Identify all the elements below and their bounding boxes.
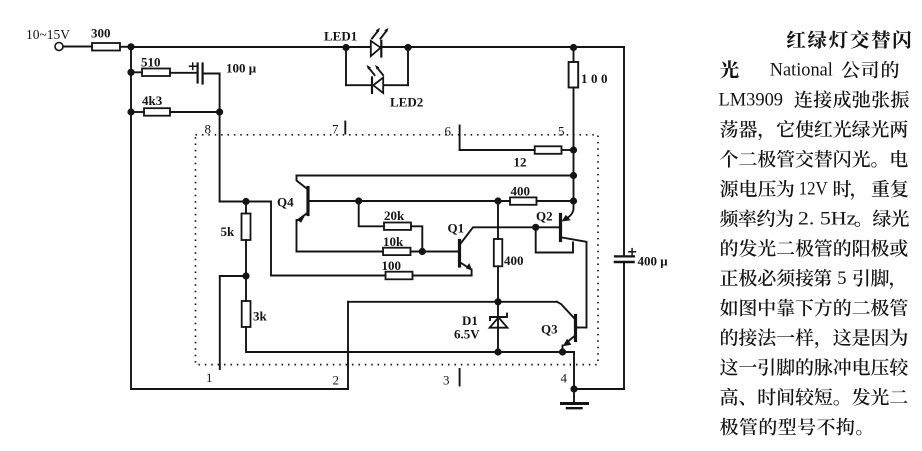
wire LED2 row	[346, 84, 408, 86]
wire 20k left leg	[359, 201, 384, 226]
wire right vertical rail lower	[623, 263, 625, 389]
wire pin 2 riser	[347, 302, 349, 389]
node ground junction	[570, 385, 577, 392]
Q1 collector	[461, 227, 498, 243]
node top rail pin5	[570, 44, 577, 51]
resistor 4k3	[144, 108, 170, 116]
node LED1 right	[404, 44, 411, 51]
wire R300 to node	[120, 46, 131, 48]
wire 10k row	[297, 251, 384, 253]
node 510 branch	[127, 69, 134, 76]
wire R510 to C1	[170, 72, 197, 74]
svg-text:400: 400	[504, 253, 524, 268]
wire 5k bottom	[245, 240, 247, 276]
svg-text:8: 8	[205, 122, 212, 137]
wire pin 8 vertical drop	[219, 74, 221, 202]
wire 100 row vertical from base rail	[270, 202, 272, 276]
node 5k top	[242, 198, 249, 205]
wire 10k to Q1 base	[411, 251, 459, 253]
wire pin5 vertical	[573, 88, 575, 202]
LED1 light arrows	[372, 32, 378, 39]
node 12/pin5	[570, 146, 577, 153]
wire 100 row left	[271, 275, 386, 277]
svg-text:12: 12	[514, 155, 527, 170]
wire bottom right to ground	[574, 388, 624, 390]
svg-text:6: 6	[445, 124, 452, 139]
wire 3k bottom to emitter row	[246, 327, 574, 352]
LED2 triangle and bar	[373, 78, 383, 94]
svg-text:12V: 12V	[799, 180, 829, 200]
wire pin2 row to D1 top	[348, 301, 557, 303]
input terminal 10~15V	[55, 43, 63, 51]
svg-text:2. 5Hz: 2. 5Hz	[798, 209, 857, 229]
svg-text:1: 1	[206, 370, 213, 385]
wire Q3 emitter drop	[562, 346, 564, 353]
resistor 100 vertical top right	[569, 62, 579, 88]
resistor 300	[92, 43, 120, 51]
zener D1 bar	[490, 314, 507, 320]
IC LM3909 dotted outline	[196, 135, 599, 365]
svg-text:National: National	[770, 61, 833, 81]
Chinese description text column: placed glyphs	[787, 31, 806, 49]
pin number labels	[205, 122, 568, 388]
Q2 emitter from pin5 rail with arrow	[568, 201, 574, 218]
svg-text:10~15V: 10~15V	[26, 27, 70, 42]
transistor Q3 base bar	[574, 316, 577, 341]
Q4 emitter with arrow	[298, 213, 309, 221]
svg-text:3k: 3k	[253, 309, 268, 324]
resistor 20k	[384, 223, 411, 230]
wire 400v bottom to D1	[497, 266, 499, 352]
svg-text:400 μ: 400 μ	[638, 254, 669, 269]
svg-text:400: 400	[511, 184, 531, 199]
wire pin4 drop	[573, 352, 575, 389]
svg-text:6.5V: 6.5V	[454, 327, 480, 342]
wire to R510	[131, 71, 142, 73]
svg-text:Q4: Q4	[277, 195, 294, 210]
wire Q2 base-collector loop	[536, 227, 573, 252]
wire Q4 collector rail to pin5 line	[297, 175, 575, 177]
svg-text:300: 300	[91, 26, 111, 41]
wire to R4k3	[131, 111, 144, 113]
node 400v top	[494, 197, 501, 204]
node LED1 left	[342, 44, 349, 51]
svg-text:Q3: Q3	[541, 322, 558, 337]
resistor 400 vertical	[494, 239, 503, 266]
Q3 collector diagonal	[557, 302, 574, 318]
node Q3 emitter on row	[559, 348, 566, 355]
wire Q1 emitter drop	[471, 270, 473, 276]
wire 100 row right	[413, 275, 472, 277]
node rail/pin5	[570, 172, 577, 179]
wire 5k top stub	[245, 202, 247, 214]
wire R12 to pin5 line	[562, 149, 574, 151]
svg-text:5: 5	[837, 269, 846, 289]
svg-text:5k: 5k	[221, 224, 236, 239]
svg-text:100 μ: 100 μ	[226, 61, 257, 76]
Q4 base wire to right	[310, 200, 511, 202]
node 10k/20k/Q1 base	[419, 248, 426, 255]
node 400h right / Q2 emitter	[570, 197, 577, 204]
LED2 light arrows	[369, 68, 375, 75]
wire pin8 corner to 5k top	[220, 201, 271, 203]
zener D1 triangle	[490, 317, 508, 327]
svg-text:Q2: Q2	[536, 209, 553, 224]
wire Q4 emitter drop to 10k row	[296, 220, 298, 252]
wire Q2 collector to Q3 base	[577, 327, 587, 329]
svg-text:510: 510	[141, 55, 161, 70]
capacitor C 100u plates	[197, 64, 199, 83]
wire 400h right	[537, 200, 574, 202]
transistor Q1 base bar	[458, 241, 461, 267]
wire pin7 stub	[344, 122, 346, 134]
wire R4k3 to pin8 line	[170, 111, 220, 113]
wire top supply rail	[131, 46, 624, 48]
resistor 400 horizontal	[510, 197, 537, 204]
svg-text:2: 2	[333, 373, 340, 388]
wire junction to pin1 drop	[220, 275, 246, 277]
wire 400v riser	[497, 201, 499, 239]
node 4k3/C1 junction	[216, 108, 223, 115]
resistor 12	[535, 146, 562, 154]
node Q4 base / 20k	[355, 197, 362, 204]
cap 400u plus sign	[629, 249, 636, 255]
electrolytic cap 400u plates	[615, 255, 634, 257]
transistor Q4 base bar	[306, 188, 309, 215]
resistor 10k	[383, 248, 411, 255]
Q2 collector diagonal	[562, 238, 587, 328]
svg-text:4k3: 4k3	[142, 93, 163, 108]
wire 3k top	[245, 276, 247, 301]
wire LED2 branch right drop	[407, 48, 409, 86]
wire bottom left rail	[131, 388, 348, 390]
node D1 top	[494, 298, 501, 305]
node 4k3 left	[127, 108, 134, 115]
wire pin6 stub	[459, 126, 461, 151]
node D1 bottom on row	[494, 348, 501, 355]
svg-text:7: 7	[332, 122, 339, 137]
svg-text:Q1: Q1	[448, 221, 465, 236]
svg-text:LM3909: LM3909	[719, 90, 784, 110]
wire 100 top stub	[573, 48, 575, 63]
resistor 100	[386, 272, 413, 280]
wire C1 to pin8 vertical	[203, 73, 220, 75]
transistor Q2 base bar	[559, 215, 562, 241]
Q1 emitter with arrow	[461, 263, 470, 269]
LED1 triangle and bar	[371, 41, 381, 56]
wire LED2 branch left drop	[345, 48, 347, 86]
node 5k/3k/pin1 junction	[242, 272, 249, 279]
resistor 510	[142, 69, 170, 77]
svg-text:20k: 20k	[384, 208, 405, 223]
wire Q1 collector to Q2 base	[498, 226, 559, 228]
capacitor plus sign	[190, 63, 196, 69]
svg-text:100: 100	[382, 258, 402, 273]
wire pin 1 vertical stub	[219, 276, 221, 369]
wire left vertical rail	[130, 47, 132, 389]
node: supply rail junction	[127, 43, 134, 50]
svg-text:4: 4	[561, 371, 568, 386]
svg-text:100: 100	[581, 71, 611, 86]
wire pin6 to R12	[460, 149, 535, 151]
wire pin3 stub	[459, 369, 461, 386]
svg-text:5: 5	[558, 124, 565, 139]
node Q2 base loop	[532, 224, 539, 231]
wire terminal to R 300	[63, 46, 92, 48]
wire right vertical rail upper	[623, 47, 625, 255]
svg-text:10k: 10k	[383, 234, 404, 249]
resistor 3k	[242, 301, 251, 327]
svg-text:LED1: LED1	[324, 29, 357, 44]
resistor 5k	[242, 214, 251, 241]
Q3 emitter with arrow	[566, 337, 574, 344]
svg-text:3: 3	[443, 373, 450, 388]
svg-text:LED2: LED2	[390, 95, 423, 110]
ground symbol	[573, 389, 575, 403]
Q4 collector	[297, 176, 309, 190]
wire 20k right leg	[411, 226, 422, 251]
